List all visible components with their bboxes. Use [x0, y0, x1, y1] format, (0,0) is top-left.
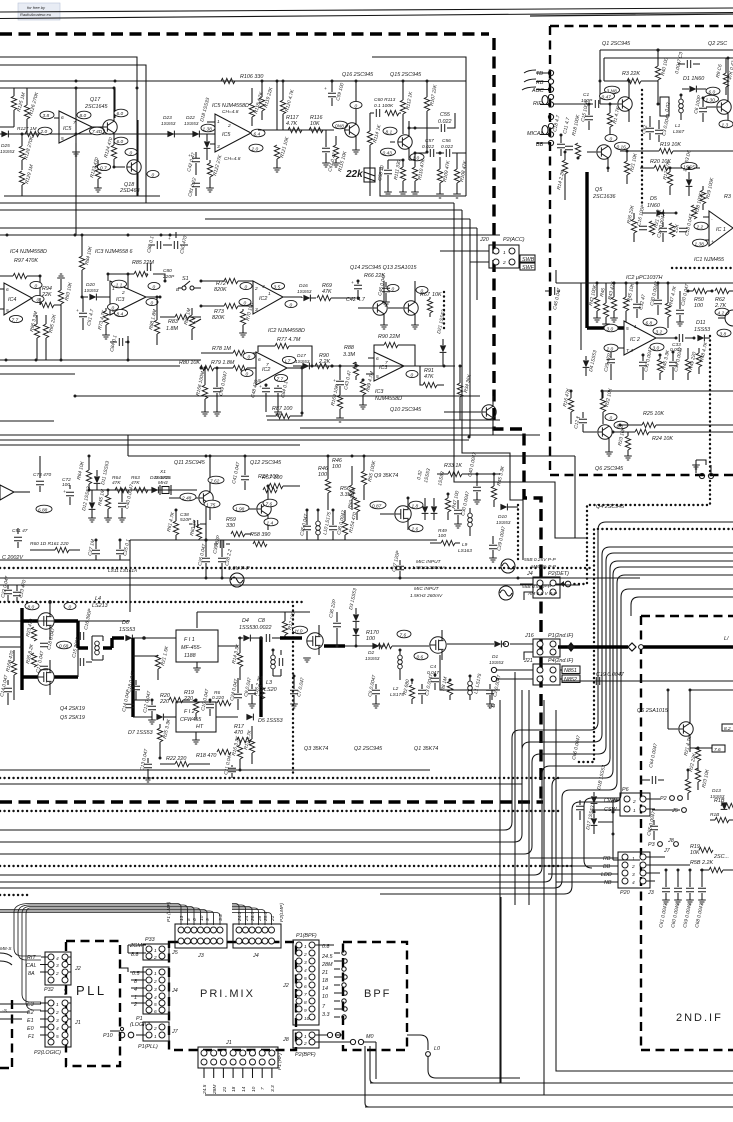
- badge 0.16: [615, 142, 630, 150]
- svg-text:3: 3: [56, 963, 59, 969]
- svg-text:CH=4.8: CH=4.8: [222, 109, 239, 115]
- svg-text:D23: D23: [163, 115, 172, 121]
- capacitor C33 0.001: [670, 334, 694, 353]
- svg-text:P32: P32: [44, 987, 54, 993]
- svg-text:7.6: 7.6: [714, 747, 721, 753]
- resistor R73 4.7K: [97, 308, 110, 339]
- svg-text:Q10 2SC945: Q10 2SC945: [390, 407, 422, 413]
- capacitor C24 0.047 mid: [229, 678, 242, 710]
- resistor R77 4.7M feedback: [258, 337, 312, 366]
- svg-text:55B 0.25V P-P: 55B 0.25V P-P: [524, 557, 557, 563]
- svg-text:D20: D20: [86, 282, 95, 288]
- resistor R14 2.2K rf: [556, 152, 568, 200]
- resistor R29 100K: [700, 177, 715, 210]
- svg-text:C80: C80: [163, 268, 172, 274]
- svg-text:L9: L9: [462, 542, 468, 548]
- svg-text:TB: TB: [536, 71, 543, 77]
- resistor R21b 10K: [649, 208, 663, 235]
- svg-text:5: 5: [376, 374, 379, 380]
- annotation 55B 0.25: [524, 557, 557, 570]
- badge 0 ic2a3: [285, 300, 297, 308]
- svg-text:0: 0: [248, 355, 251, 361]
- resistor R170 100: [345, 630, 400, 649]
- connector P33 J5: [128, 937, 179, 961]
- op-amp IC1 rf: [700, 211, 733, 246]
- wire bus B y235: [0, 234, 500, 236]
- transistor Q1 rf: [600, 80, 632, 123]
- annotation MIC INPUT 1: [412, 559, 515, 573]
- resistor R26 22K rf: [626, 204, 637, 242]
- svg-text:R25 10K: R25 10K: [643, 411, 664, 417]
- svg-text:RadioAmateur.eu: RadioAmateur.eu: [20, 12, 52, 17]
- capacitor C14 0.047 left: [0, 674, 12, 705]
- capacitor C61 0.47: [322, 130, 338, 173]
- RF box edge pins TB..BB: [522, 70, 554, 148]
- resistor R115 10K: [332, 136, 348, 173]
- svg-text:8.1: 8.1: [386, 130, 393, 136]
- svg-text:1.30: 1.30: [706, 98, 716, 104]
- resistor R57 100: [262, 475, 300, 489]
- badge L7: [282, 356, 295, 364]
- resistor R88 1.8M: [148, 297, 160, 345]
- svg-text:for free by: for free by: [27, 5, 46, 10]
- svg-text:8.2: 8.2: [724, 726, 731, 732]
- wire block C frame: [0, 435, 575, 612]
- transistor Q6 pnp: [668, 714, 693, 748]
- badge 1.0 q15: [410, 153, 424, 161]
- resistor R18b: [710, 812, 733, 823]
- resistor R1B agc: [714, 798, 733, 809]
- wire bus C y445: [0, 444, 300, 446]
- svg-text:28M: 28M: [212, 1085, 218, 1095]
- svg-text:470: 470: [234, 730, 243, 736]
- resistor R19 10K: [620, 142, 733, 154]
- svg-text:100: 100: [318, 472, 327, 478]
- svg-text:0: 0: [244, 301, 247, 307]
- svg-text:R27 100: R27 100: [258, 474, 278, 480]
- resistor R126 270K: [24, 88, 40, 134]
- capacitor C8 0.0022: [255, 618, 280, 642]
- svg-text:R97 470K: R97 470K: [14, 258, 38, 264]
- svg-text:R1B: R1B: [710, 812, 720, 818]
- svg-text:24: 24: [244, 915, 250, 922]
- wire rf mid rail: [556, 270, 733, 350]
- wire top border line 2: [0, 13, 733, 19]
- svg-text:0.87: 0.87: [372, 504, 382, 510]
- capacitor C15 390P: [71, 636, 92, 677]
- svg-text:10K: 10K: [690, 850, 700, 856]
- capacitor C50 470: [168, 232, 189, 254]
- svg-text:Q12 2SC945: Q12 2SC945: [250, 460, 282, 466]
- badge 1.75: [204, 500, 220, 508]
- capacitor C30 rf: [649, 281, 662, 315]
- svg-text:0: 0: [37, 298, 40, 304]
- svg-text:1: 1: [304, 1034, 307, 1040]
- svg-text:C4: C4: [430, 664, 436, 670]
- svg-text:HT: HT: [196, 724, 204, 730]
- dotted bus fragment y895: [0, 894, 30, 896]
- svg-text:28M: 28M: [321, 962, 333, 968]
- badge 3.5: [271, 282, 284, 290]
- svg-text:47K: 47K: [322, 289, 332, 295]
- svg-text:24.5: 24.5: [202, 1084, 208, 1095]
- capacitor C55 0.022: [409, 112, 455, 136]
- svg-text:Q3 35K74: Q3 35K74: [304, 746, 328, 752]
- svg-text:J5: J5: [671, 808, 679, 814]
- svg-text:7.4D: 7.4D: [92, 129, 103, 135]
- svg-text:R78 1M: R78 1M: [212, 346, 231, 352]
- wire bus B y366: [0, 365, 455, 367]
- dotted wire left mid: [292, 606, 294, 777]
- svg-text:R90 22M: R90 22M: [378, 334, 400, 340]
- resistor R79 1.8M: [211, 360, 256, 371]
- dashed box top-right RF unit: [550, 26, 733, 475]
- wire bus B y374: [0, 373, 75, 375]
- svg-text:5: 5: [626, 326, 629, 332]
- capacitor C84 0.1: [109, 334, 129, 360]
- badge 1.98: [233, 504, 249, 512]
- resistor R72 820K: [201, 278, 253, 293]
- capacitor C18 0.047: [126, 670, 140, 700]
- wire bus A-B y81: [0, 80, 466, 82]
- svg-text:RIT: RIT: [27, 955, 36, 961]
- svg-text:LS20: LS20: [264, 687, 277, 693]
- resistor R25 3.3K: [157, 718, 172, 758]
- svg-text:R106 330: R106 330: [240, 74, 263, 80]
- circle LO pin: [426, 1046, 520, 1078]
- transistor Q13: [388, 281, 419, 329]
- dashed separator vertical with jogs: [494, 38, 541, 799]
- capacitor C58 10: [377, 160, 392, 196]
- resistor R108 47K: [453, 153, 469, 198]
- connector J2 P1(BPF): [282, 933, 347, 1025]
- capacitor C25: [116, 538, 132, 560]
- badge 0 c60: [350, 101, 362, 109]
- svg-text:J2: J2: [74, 966, 81, 972]
- svg-text:100: 100: [62, 482, 70, 488]
- svg-text:220P: 220P: [162, 274, 175, 280]
- svg-text:3: 3: [632, 872, 635, 878]
- svg-text:IC5 NJM4558D: IC5 NJM4558D: [212, 103, 249, 109]
- wire D6 to FI1: [133, 638, 176, 717]
- wire bus C top y435: [0, 434, 540, 436]
- capacitor C64 0.0047: [640, 743, 664, 784]
- resistor R12 100: [282, 611, 296, 638]
- capacitor C51b 47: [12, 528, 28, 548]
- svg-text:L1: L1: [675, 123, 681, 129]
- svg-text:D5: D5: [650, 196, 658, 202]
- capacitor C81 0.22: [187, 177, 200, 198]
- wire bus A-B y88: [0, 87, 115, 89]
- junction diamond on IF line: [628, 643, 636, 651]
- capacitor C6 100P: [693, 94, 707, 122]
- svg-text:CFW455: CFW455: [180, 717, 202, 723]
- badge 6.8 q6: [614, 421, 628, 429]
- svg-text:J8: J8: [282, 1037, 289, 1043]
- op-amp IC4: [0, 283, 42, 315]
- svg-text:0: 0: [69, 605, 72, 611]
- svg-text:18: 18: [322, 978, 328, 984]
- svg-text:220: 220: [159, 699, 169, 705]
- svg-text:1.8M: 1.8M: [166, 326, 178, 332]
- svg-text:R87 100: R87 100: [272, 406, 292, 412]
- diode D12: [81, 486, 96, 522]
- capacitor C28 2.2: [218, 540, 234, 578]
- svg-text:SWB: SWB: [522, 257, 535, 263]
- transistor Q15: [390, 121, 412, 160]
- badge 0 ic2a1: [240, 282, 252, 290]
- badge 3N8: [605, 86, 620, 94]
- svg-text:0: 0: [610, 416, 613, 422]
- svg-text:100: 100: [366, 636, 375, 642]
- wire block D frame left: [0, 578, 640, 628]
- svg-text:4: 4: [632, 880, 635, 886]
- svg-text:4.2: 4.2: [718, 311, 725, 317]
- svg-text:+: +: [324, 87, 327, 92]
- thermistor hatch: [364, 168, 375, 182]
- svg-text:L0: L0: [434, 1046, 440, 1052]
- badge 0 q4: [64, 602, 76, 610]
- svg-text:6.4: 6.4: [254, 132, 261, 138]
- capacitor C59 100: [324, 80, 346, 107]
- svg-text:IC5: IC5: [63, 126, 72, 132]
- resistor R16 47K rf: [562, 387, 574, 424]
- dashed box BPF: [343, 942, 407, 1050]
- svg-text:7.7: 7.7: [12, 318, 19, 324]
- svg-text:10: 10: [199, 915, 205, 921]
- svg-text:330: 330: [226, 523, 235, 529]
- resistor R69 47K: [317, 283, 355, 301]
- resistor R5B 2.2K: [690, 860, 733, 873]
- badge 0 ic4b: [32, 295, 44, 303]
- svg-text:1: 1: [634, 324, 637, 330]
- connector J21 P4(2nd.IF): [489, 658, 580, 710]
- capacitor C40b 0.0047: [118, 484, 135, 522]
- svg-text:J1: J1: [74, 1020, 81, 1026]
- svg-text:P1(BPF): P1(BPF): [296, 933, 317, 939]
- svg-text:100: 100: [438, 533, 446, 539]
- wire P6 feeds: [584, 798, 620, 868]
- svg-text:D2: D2: [368, 650, 374, 656]
- svg-text:C56: C56: [442, 138, 451, 144]
- svg-text:P3: P3: [648, 842, 655, 848]
- badge 3.8: [40, 111, 54, 119]
- svg-text:10K: 10K: [310, 121, 320, 127]
- svg-text:Q16 2SC945: Q16 2SC945: [342, 72, 374, 78]
- connector P20 J3: [601, 852, 690, 896]
- connector J8 P2(BPF): [282, 1030, 376, 1058]
- dotted shielded bus y811: [0, 810, 560, 812]
- resistor R73b 820K: [201, 303, 253, 321]
- capacitor C18 4.7: [552, 114, 565, 156]
- diode D20: [82, 282, 110, 300]
- svg-text:D11: D11: [696, 320, 706, 326]
- svg-text:MIC INPUT: MIC INPUT: [414, 586, 440, 592]
- svg-text:2: 2: [303, 1041, 307, 1047]
- resistor R62 2.7K: [714, 288, 733, 309]
- dashed board separator horizontal: [0, 32, 489, 35]
- svg-text:R67: R67: [420, 292, 431, 298]
- svg-text:Q5: Q5: [595, 187, 603, 193]
- inductor L1 LS67: [673, 95, 685, 135]
- svg-text:R80 10K: R80 10K: [179, 360, 200, 366]
- wire bus B y396: [75, 395, 480, 397]
- svg-text:P2(ACC): P2(ACC): [503, 237, 525, 243]
- svg-text:1.0: 1.0: [413, 156, 420, 162]
- svg-text:0.16: 0.16: [617, 145, 627, 151]
- wire rf y391: [602, 391, 733, 398]
- svg-text:0: 0: [152, 173, 155, 179]
- diode D25: [0, 131, 15, 155]
- svg-text:0: 0: [411, 373, 414, 379]
- capacitor C80 220P: [147, 263, 175, 280]
- svg-text:C51 47: C51 47: [12, 528, 28, 534]
- badge 8.4: [114, 309, 127, 317]
- resistor R64b 10K: [76, 456, 92, 490]
- wire C19 line: [562, 680, 733, 682]
- capacitor C29b: [489, 526, 507, 562]
- connector P6 CWN/CSW: [604, 787, 660, 816]
- badge 0.87: [370, 501, 386, 509]
- svg-text:E2: E2: [27, 1010, 34, 1016]
- diode D18: [591, 764, 608, 812]
- badge 0.6 q1: [414, 652, 428, 660]
- resistor R169 10K: [330, 384, 344, 422]
- dashed box PLL: [66, 941, 120, 1066]
- wire 2nd IF thick line: [558, 645, 733, 648]
- resistor R90b 2.2K: [315, 353, 356, 369]
- svg-text:7: 7: [266, 362, 269, 368]
- wire frame right of Q15: [372, 57, 466, 196]
- badge 2.0 ic5b: [249, 144, 263, 152]
- thick line L4 to D6: [103, 638, 124, 648]
- resistor R20 10K: [640, 159, 700, 171]
- svg-text:21: 21: [321, 970, 328, 976]
- svg-text:L/: L/: [724, 636, 729, 642]
- svg-text:IC 2: IC 2: [630, 337, 640, 343]
- resistor R61 4.7K: [166, 510, 179, 540]
- svg-text:AM 6.8 V P-P: AM 6.8 V P-P: [527, 591, 558, 597]
- wire nest line 7 to P6: [380, 589, 733, 894]
- svg-text:6.0: 6.0: [117, 139, 124, 145]
- svg-text:8: 8: [186, 918, 192, 921]
- svg-text:18: 18: [231, 1086, 237, 1092]
- resistor R21 10K rf: [624, 152, 639, 184]
- transistor Q10: [444, 396, 496, 435]
- badge 1.38b: [693, 239, 708, 247]
- badge 0 q14: [387, 284, 399, 292]
- capacitor C42b 4.7: [346, 281, 366, 303]
- filter FI2: [176, 702, 238, 744]
- svg-text:2SC1636: 2SC1636: [592, 194, 615, 200]
- svg-text:6: 6: [154, 1009, 157, 1015]
- diode D22: [184, 115, 199, 137]
- svg-text:10: 10: [251, 1086, 257, 1092]
- svg-text:0.6: 0.6: [417, 655, 424, 661]
- badge 7.62: [208, 476, 224, 484]
- resistor R67 10K: [420, 292, 442, 317]
- resistor R45 10K rf: [623, 282, 636, 322]
- svg-text:1: 1: [154, 1034, 157, 1040]
- badge 1.30: [704, 95, 719, 103]
- svg-text:2SD468: 2SD468: [119, 188, 139, 194]
- dotted shielded bus y866: [0, 865, 572, 867]
- svg-text:ZGM: ZGM: [129, 943, 142, 949]
- op-amp IC2 rf: [618, 321, 676, 355]
- svg-text:0: 0: [245, 285, 248, 291]
- svg-text:14: 14: [322, 986, 328, 992]
- svg-text:R5B 2.2K: R5B 2.2K: [690, 860, 713, 866]
- svg-text:PRI.MIX: PRI.MIX: [200, 988, 255, 1000]
- svg-text:4: 4: [154, 995, 157, 1001]
- svg-text:0: 0: [392, 287, 395, 293]
- diode D6 rf: [682, 149, 692, 196]
- wire nest line 5: [0, 567, 733, 882]
- svg-text:L7: L7: [285, 359, 291, 365]
- resistor R127 1M: [17, 126, 39, 137]
- capacitor C9 0.047: [243, 677, 256, 708]
- resistor R48 4.7K: [696, 341, 709, 374]
- connector J1 P1(RF) bottom: [198, 1040, 283, 1095]
- capacitor C31 rf: [639, 347, 654, 380]
- diode D1 to IF out: [447, 641, 506, 666]
- capacitor C10 0.220: [200, 688, 214, 716]
- resistor R118 4.7K: [249, 88, 265, 126]
- svg-text:6: 6: [304, 984, 307, 990]
- resistor R22 220: [160, 756, 210, 767]
- resistor R116 10K: [309, 115, 323, 133]
- wire opamp to Q16: [258, 129, 334, 131]
- svg-text:R33 1K: R33 1K: [444, 463, 462, 469]
- svg-text:N852: N852: [564, 677, 577, 683]
- svg-text:2: 2: [254, 286, 258, 292]
- op-amp IC3 right: [366, 352, 420, 381]
- resistor R109 47K: [436, 157, 452, 198]
- svg-text:8: 8: [304, 1000, 307, 1006]
- svg-text:3.8: 3.8: [43, 113, 50, 119]
- svg-text:C55: C55: [440, 112, 451, 118]
- badge 0 ic4a: [30, 281, 42, 289]
- svg-text:0: 0: [112, 306, 115, 312]
- svg-text:IC4: IC4: [8, 297, 16, 303]
- badge 6.0 q2: [706, 87, 720, 95]
- resistor R60 1K: [189, 519, 202, 540]
- svg-text:4: 4: [56, 1026, 59, 1032]
- svg-text:MF-455-: MF-455-: [181, 645, 202, 651]
- svg-text:1: 1: [633, 808, 636, 814]
- capacitor C29 47P: [603, 352, 615, 380]
- thick shield bar: [587, 172, 624, 328]
- svg-text:1SS53: 1SS53: [710, 794, 725, 800]
- diode D10: [496, 504, 518, 526]
- badge 4.2: [715, 308, 729, 316]
- wire top border line 1: [0, 8, 733, 12]
- badge 0 q13: [416, 286, 428, 294]
- capacitor C16 390P: [80, 608, 93, 640]
- svg-text:J8: J8: [667, 838, 674, 844]
- svg-text:2.2: 2.2: [696, 225, 704, 231]
- svg-text:1.5KHz 260mV: 1.5KHz 260mV: [410, 593, 443, 599]
- capacitor C26 cluster mid: [197, 540, 210, 578]
- resistor R78 1M: [201, 346, 256, 356]
- capacitor C48 470: [250, 379, 270, 412]
- svg-text:3.3: 3.3: [270, 1085, 276, 1092]
- junction diamond at J16: [567, 642, 575, 652]
- svg-text:IC3: IC3: [116, 297, 124, 303]
- svg-text:1SS53: 1SS53: [694, 327, 710, 333]
- connector J6 P1(LOGIC): [130, 967, 178, 1028]
- resistor R24 10K rf: [613, 429, 733, 442]
